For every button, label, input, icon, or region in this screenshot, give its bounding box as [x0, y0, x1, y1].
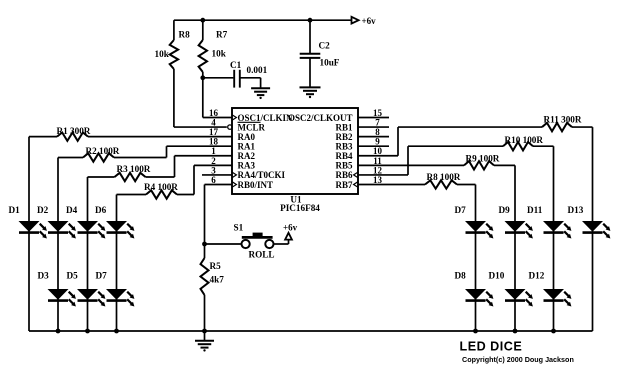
wire switch to +6v — [274, 240, 289, 244]
resistor R4 — [146, 190, 177, 198]
wire D13 column — [592, 127, 594, 331]
wire D1 top corner — [29, 136, 57, 138]
resistor R8 right — [425, 180, 457, 188]
svg-text:S1: S1 — [234, 223, 244, 233]
svg-text:7: 7 — [375, 117, 380, 127]
svg-text:D5: D5 — [67, 271, 79, 281]
wire R7 to OSC1 pin 16 — [203, 72, 232, 118]
wire D2 top corner — [58, 157, 83, 159]
svg-text:10: 10 — [373, 146, 383, 156]
wire pin 7 RB1 stub — [358, 126, 389, 128]
svg-text:13: 13 — [373, 175, 383, 185]
label R4 100R — [144, 182, 178, 192]
svg-text:R4 100R: R4 100R — [144, 182, 178, 192]
wire R9 to D9 column — [494, 164, 515, 166]
svg-text:11: 11 — [373, 156, 382, 166]
LED D4 — [66, 205, 105, 238]
wire R10 to D11 column — [533, 145, 554, 147]
svg-text:RB6: RB6 — [335, 170, 353, 180]
LED D8 — [455, 271, 494, 307]
node junction rail-C2 — [308, 18, 313, 23]
svg-text:D9: D9 — [499, 205, 511, 215]
svg-text:4: 4 — [211, 117, 216, 127]
svg-text:D13: D13 — [568, 205, 584, 215]
svg-text:16: 16 — [209, 108, 219, 118]
label R8 100R — [427, 172, 461, 182]
svg-text:OSC2/CLKOUT: OSC2/CLKOUT — [288, 113, 353, 123]
pin number 12 right — [373, 165, 383, 175]
pin name RA1 — [238, 142, 256, 152]
label R11 300R — [544, 115, 582, 125]
wire C1 to ground — [240, 78, 261, 89]
label U1 — [290, 195, 302, 205]
+6v arrow at switch — [283, 223, 298, 240]
label ROLL — [249, 250, 275, 260]
LED D3 — [38, 271, 76, 307]
wire R3 to pin 1 RA2 — [146, 156, 233, 177]
resistor R7 — [199, 20, 228, 72]
svg-text:RA3: RA3 — [238, 161, 256, 171]
ground below C2 — [300, 87, 321, 98]
svg-text:OSC1/CLKIN: OSC1/CLKIN — [238, 113, 294, 123]
pin name OSC1/CLKIN — [238, 113, 294, 123]
node junction bus x58 — [56, 329, 61, 334]
wire pin 6 RB0 to S1 junction — [205, 184, 233, 244]
svg-text:D8: D8 — [455, 271, 467, 281]
svg-text:15: 15 — [373, 108, 383, 118]
node junction rail-R7 — [200, 18, 205, 23]
capacitor C1 — [230, 60, 242, 88]
label R2 100R — [86, 146, 120, 156]
wire D2 column — [57, 158, 59, 332]
resistor R3 — [115, 173, 146, 181]
pin 4 MCLR bubble — [228, 125, 232, 129]
wire D9 column — [514, 165, 516, 331]
wire pin 3 RA4 stub — [202, 174, 232, 176]
svg-text:RA4/T0CKI: RA4/T0CKI — [238, 170, 286, 180]
resistor R11 — [542, 123, 572, 131]
svg-text:Copyright(c) 2000 Doug Jackson: Copyright(c) 2000 Doug Jackson — [462, 355, 574, 364]
svg-text:0.001: 0.001 — [247, 65, 268, 75]
node junction S1-R5 — [202, 242, 207, 247]
MCLR overline — [238, 121, 261, 123]
node junction bus x116 — [114, 329, 119, 334]
svg-text:R1 300R: R1 300R — [57, 126, 91, 136]
label C1 value 0.001 — [247, 65, 268, 75]
pin number 9 right — [375, 137, 380, 147]
resistor R5 — [201, 244, 222, 331]
wire R2 to pin 18 RA1 — [114, 146, 232, 157]
svg-text:2: 2 — [211, 156, 216, 166]
pin number 13 right — [373, 175, 383, 185]
svg-text:R5: R5 — [210, 261, 222, 271]
svg-text:ROLL: ROLL — [249, 250, 275, 260]
pin name OSC2/CLKOUT — [288, 113, 353, 123]
ground main — [195, 341, 214, 352]
svg-text:RB3: RB3 — [335, 142, 353, 152]
svg-text:+6v: +6v — [362, 16, 377, 26]
wire R11 to D13 column — [572, 126, 593, 128]
pin name RB2 — [335, 132, 353, 142]
wire bus to ground — [204, 331, 206, 341]
svg-text:D7: D7 — [455, 205, 467, 215]
resistor R2 — [83, 153, 114, 161]
pin number 1 left — [211, 146, 216, 156]
wire rail to C2 — [309, 20, 311, 54]
label R3 100R — [117, 164, 151, 174]
pin 6 input chevron — [232, 182, 236, 188]
pin name RB4 — [335, 151, 353, 161]
svg-text:R10 100R: R10 100R — [505, 135, 544, 145]
LED D9 right — [499, 205, 533, 238]
svg-text:18: 18 — [209, 137, 219, 147]
svg-text:R8 100R: R8 100R — [427, 172, 461, 182]
label R5 value 4k7 — [210, 275, 225, 285]
pin name RB1 — [335, 122, 353, 132]
pin number 6 left — [211, 175, 216, 185]
wire D1 column — [28, 137, 30, 331]
ground below C1 — [251, 88, 270, 99]
wire D4 column — [87, 177, 89, 331]
pin name RA4/T0CKI — [238, 170, 286, 180]
wire pin 15 OSC2 stub — [358, 117, 389, 119]
svg-text:RB7: RB7 — [335, 180, 353, 190]
wire R8 to MCLR pin 4 — [174, 69, 227, 127]
pin name RB3 — [335, 142, 353, 152]
LED D2 — [37, 205, 76, 238]
svg-text:MCLR: MCLR — [238, 122, 266, 132]
svg-text:LED DICE: LED DICE — [460, 340, 523, 354]
wire D4 top corner — [88, 176, 115, 178]
svg-text:10k: 10k — [212, 49, 227, 59]
pin number 10 right — [373, 146, 383, 156]
svg-text:10uF: 10uF — [320, 58, 340, 68]
svg-text:6: 6 — [211, 175, 216, 185]
node junction bus x553 — [551, 329, 556, 334]
svg-text:9: 9 — [375, 137, 380, 147]
svg-text:D7: D7 — [96, 271, 108, 281]
wire R7 junction to C1 — [203, 77, 234, 79]
pin number 2 left — [211, 156, 216, 166]
wire D11 column — [553, 146, 555, 331]
wire pin 8 RB2 stub — [358, 136, 389, 138]
svg-text:RB1: RB1 — [335, 122, 353, 132]
wire D6 top corner — [117, 194, 147, 196]
wire C2 to ground — [309, 58, 311, 88]
pin name RA3 — [238, 161, 256, 171]
node junction bus x515 — [513, 329, 518, 334]
node junction bus x87 — [85, 329, 90, 334]
svg-text:R7: R7 — [216, 30, 228, 40]
wire pin 11 RB5 to R9 — [358, 164, 464, 166]
pin number 16 left — [209, 108, 219, 118]
svg-text:RA1: RA1 — [238, 142, 256, 152]
pin name RB7 — [335, 180, 353, 190]
pin number 11 right — [373, 156, 382, 166]
pin name RA2 — [238, 151, 256, 161]
pin number 18 left — [209, 137, 219, 147]
svg-text:8: 8 — [375, 127, 380, 137]
svg-text:+6v: +6v — [283, 223, 298, 233]
svg-text:D2: D2 — [37, 205, 49, 215]
node junction bus x475 — [473, 329, 478, 334]
svg-text:PIC16F84: PIC16F84 — [280, 203, 320, 213]
node junction bus x204 — [202, 329, 207, 334]
label R8 value 10k — [155, 49, 170, 59]
svg-text:R11 300R: R11 300R — [544, 115, 582, 125]
wire D6 column — [116, 195, 118, 332]
pin name RB0/INT — [238, 180, 274, 190]
label R10 100R — [505, 135, 544, 145]
pin 16 input chevron — [232, 115, 236, 121]
svg-text:C2: C2 — [319, 41, 331, 51]
svg-text:1: 1 — [211, 146, 216, 156]
svg-text:3: 3 — [211, 165, 216, 175]
switch S1 — [234, 223, 274, 249]
LED D12 — [529, 271, 572, 307]
wire D7 right column — [475, 184, 477, 331]
wire pin 9 RB3 stub — [358, 145, 389, 147]
label R1 300R — [57, 126, 91, 136]
pin 3 input chevron — [232, 172, 236, 178]
LED D11 right — [527, 205, 571, 238]
svg-text:10k: 10k — [155, 49, 170, 59]
pin name RB6 — [335, 170, 353, 180]
svg-text:D3: D3 — [38, 271, 50, 281]
pin number 3 left — [211, 165, 216, 175]
wire pin 13 RB7 to R8 — [358, 183, 425, 185]
pin number 15 right — [373, 108, 383, 118]
svg-text:D12: D12 — [529, 271, 545, 281]
label R9 100R — [466, 154, 500, 164]
label C2 value 10uF — [320, 58, 340, 68]
svg-text:R9 100R: R9 100R — [466, 154, 500, 164]
LED D5 — [67, 271, 106, 307]
svg-text:R2 100R: R2 100R — [86, 146, 120, 156]
svg-text:RA2: RA2 — [238, 151, 256, 161]
wire ground bus — [29, 330, 593, 332]
label LED DICE title — [460, 340, 523, 354]
label copyright — [462, 355, 574, 364]
wire R8 to D7 column — [457, 183, 476, 185]
svg-text:RB2: RB2 — [335, 132, 353, 142]
pin name RA0 — [238, 132, 256, 142]
resistor R1 — [57, 132, 88, 140]
resistor R10 — [503, 142, 533, 150]
svg-text:D4: D4 — [66, 205, 78, 215]
wire R1 to pin 17 RA0 — [88, 136, 232, 138]
wire S1 junction to switch — [205, 243, 242, 245]
LED D7 right — [455, 205, 494, 238]
pin name RB5 — [335, 161, 353, 171]
pin number 17 left — [209, 127, 219, 137]
wire pin 10 RB4 to R11 row — [358, 127, 542, 156]
svg-text:RB5: RB5 — [335, 161, 353, 171]
svg-text:R3 100R: R3 100R — [117, 164, 151, 174]
wire +6v top rail — [174, 19, 352, 21]
svg-text:C1: C1 — [230, 60, 242, 70]
+6v supply arrow top — [352, 16, 377, 26]
pin name MCLR — [238, 122, 266, 132]
LED D1 — [9, 205, 47, 238]
svg-text:12: 12 — [373, 165, 383, 175]
svg-text:4k7: 4k7 — [210, 275, 225, 285]
pin 13 chevron — [354, 182, 358, 188]
wire pin 12 RB6 to R10 row — [358, 146, 503, 175]
label PIC16F84 — [280, 203, 320, 213]
svg-text:RB0/INT: RB0/INT — [238, 180, 274, 190]
LED D13 right — [568, 205, 611, 238]
resistor R9 — [464, 161, 494, 169]
svg-text:D1: D1 — [9, 205, 21, 215]
pin number 4 left — [211, 117, 216, 127]
pin 12 chevron — [354, 172, 358, 178]
label R7 value 10k — [212, 49, 227, 59]
resistor R8 — [170, 20, 190, 69]
wire R4 to pin 2 RA3 — [177, 165, 232, 194]
node junction R7-C1 — [200, 75, 205, 80]
svg-text:17: 17 — [209, 127, 219, 137]
LED D10 — [489, 271, 533, 307]
svg-text:D10: D10 — [489, 271, 505, 281]
svg-text:RB4: RB4 — [335, 151, 353, 161]
pin number 8 right — [375, 127, 380, 137]
pin number 7 right — [375, 117, 380, 127]
LED D7 — [96, 271, 135, 307]
svg-text:RA0: RA0 — [238, 132, 256, 142]
op IC U1 PIC16F84 box — [232, 108, 358, 194]
svg-text:R8: R8 — [179, 30, 191, 40]
capacitor C2 — [300, 41, 330, 58]
LED D6 — [95, 205, 134, 238]
svg-text:D6: D6 — [95, 205, 107, 215]
svg-text:D11: D11 — [527, 205, 543, 215]
